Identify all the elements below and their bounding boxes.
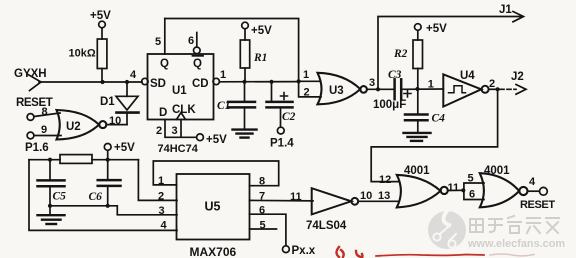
node junction U3 output / J1 riser	[376, 87, 380, 91]
svg-text:3: 3	[172, 125, 178, 137]
node terminal Px.x	[283, 245, 316, 257]
svg-text:8: 8	[259, 176, 265, 188]
label U1	[172, 85, 187, 97]
svg-text:SD: SD	[150, 78, 166, 90]
pin number 4 (SD)	[130, 69, 137, 81]
pin number 5 (U5)	[260, 220, 266, 232]
pin number 7 (U5)	[259, 191, 265, 203]
gate U3 NOR	[318, 73, 367, 105]
pin number 4 (U5)	[161, 220, 168, 232]
pin number 1 (CD)	[220, 69, 226, 81]
power +5V terminal (bottom-left rail)	[104, 142, 135, 154]
polarity plus of C3	[404, 90, 411, 97]
node P1.6 label	[25, 142, 49, 154]
label U4	[460, 70, 475, 82]
wire 74LS04 output to 4001 input 13	[358, 200, 399, 202]
wire GYXH horizontal net to SD	[39, 81, 142, 83]
pin number 10 (U2 output)	[109, 115, 121, 127]
svg-text:U1: U1	[172, 85, 187, 97]
svg-text:C4: C4	[432, 113, 446, 125]
svg-text:Px.x: Px.x	[292, 245, 316, 257]
svg-text:10: 10	[360, 190, 372, 202]
capacitor C4	[405, 89, 428, 132]
wire J1 riser and arrow	[378, 12, 524, 90]
svg-text:J2: J2	[511, 71, 524, 83]
svg-text:1: 1	[158, 175, 164, 187]
wire U1 pins 2,3 to +5V terminal	[165, 120, 197, 138]
power +5V terminal (R1)	[242, 22, 272, 37]
pin number 10 (74LS04 output)	[360, 190, 372, 202]
node RESET input label	[16, 97, 53, 109]
capacitor C5	[38, 160, 65, 206]
svg-text:7: 7	[259, 191, 265, 203]
svg-text:2: 2	[156, 125, 162, 137]
resistor horizontal on +5V rail	[60, 155, 92, 164]
node junction R1/C1	[242, 80, 246, 84]
pin number 6 (Q-bar) stub with bubble	[188, 33, 200, 54]
resistor 10kΩ pull-up	[97, 28, 107, 82]
inverter U4 schmitt 74HC14	[443, 74, 488, 106]
svg-text:1: 1	[428, 78, 434, 90]
svg-text:3: 3	[159, 205, 165, 217]
wire +5V rail (left part, resistor leads, to pin2 riser)	[29, 159, 138, 161]
pin number 12 (4001 input)	[379, 174, 391, 186]
resistor R1	[240, 29, 249, 82]
label MAX706	[190, 245, 237, 258]
svg-text:10kΩ: 10kΩ	[69, 48, 96, 60]
IC U5 MAX706 box	[177, 174, 250, 240]
svg-text:P1.4: P1.4	[270, 138, 294, 150]
wire U4 output to J2 node	[489, 88, 498, 90]
wire feedback from J2 node down-left to 4001 input 12	[371, 89, 497, 181]
node junction at U3 inputs	[297, 79, 301, 83]
svg-text:+5V: +5V	[90, 10, 111, 22]
pin number 2 (U5)	[158, 191, 164, 203]
label U2	[66, 121, 81, 133]
diode D1	[116, 82, 139, 125]
svg-text:U5: U5	[205, 200, 221, 214]
pin number 4 (4001 output)	[529, 176, 536, 188]
pin number 2 (U3 input)	[304, 87, 310, 99]
inverter 74LS04	[312, 188, 358, 214]
label D	[159, 107, 167, 119]
node junction R2/C3/C4	[415, 87, 419, 91]
wire second 4001 input bracket pins 5,6	[461, 183, 484, 200]
power +5V terminal (U1 pins 2,3)	[197, 134, 228, 146]
node junction C5 bottom / ground	[48, 204, 52, 208]
pin number 9 (U2 input)	[41, 124, 47, 136]
gate U2 NOR	[57, 110, 107, 140]
wire U3 output to C3	[367, 88, 394, 90]
capacitor C6	[98, 180, 121, 206]
svg-text:4: 4	[529, 176, 536, 188]
value label R2	[393, 48, 408, 60]
gate 4001 first NOR	[397, 175, 448, 208]
value label 10kΩ	[69, 48, 96, 60]
value label C1	[217, 100, 230, 112]
polarity plus of C2	[281, 93, 288, 100]
svg-text:4: 4	[130, 69, 137, 81]
wire U5 pin7 to 74LS04 input	[250, 199, 314, 202]
svg-text:100μF: 100μF	[373, 99, 406, 111]
wire CD node horizontal (CD pin to U3 input bracket)	[219, 81, 298, 83]
pin number 3 (CLK)	[172, 125, 178, 137]
svg-text:J1: J1	[499, 4, 512, 16]
wire U5 pin6 to Px.x terminal	[250, 214, 286, 246]
svg-text:CLK: CLK	[172, 104, 196, 116]
node J2 label	[511, 71, 524, 83]
node junction C2 branch	[269, 80, 273, 84]
pin number 11 (4001 output)	[448, 182, 460, 194]
node junction pull-up resistor on GYXH wire	[100, 80, 104, 84]
value label C6	[89, 191, 103, 203]
label 74HC74	[158, 143, 199, 155]
capacitor C3 polarized	[395, 79, 402, 99]
svg-text:GYXH: GYXH	[14, 68, 47, 80]
svg-text:74HC74: 74HC74	[158, 143, 199, 155]
schmitt hysteresis icon	[449, 86, 466, 93]
svg-text:RESET: RESET	[520, 199, 555, 211]
wire U2 output to D1 cathode	[106, 124, 127, 126]
pin number 3 (U5)	[159, 205, 165, 217]
svg-text:Q: Q	[160, 58, 169, 70]
label CD with inversion bubble	[192, 78, 219, 90]
wire +5V stem through rail to C6	[107, 150, 109, 180]
wire C3 to U4 input	[402, 88, 443, 90]
svg-text:11: 11	[290, 191, 302, 203]
svg-text:CD: CD	[192, 78, 209, 90]
svg-text:U3: U3	[329, 85, 344, 97]
pin number 6 (4001 input)	[469, 189, 475, 201]
wire RESET to U2 input	[34, 113, 60, 117]
node RESET output label	[520, 199, 555, 211]
svg-text:2: 2	[158, 191, 164, 203]
pin number 1 (U4 input)	[428, 78, 434, 90]
svg-text:4: 4	[161, 220, 168, 232]
power +5V terminal (R2)	[415, 23, 448, 35]
svg-text:MAX706: MAX706	[190, 245, 237, 258]
label U3	[329, 85, 344, 97]
node terminal pin 8 of U2	[27, 114, 34, 121]
svg-text:D1: D1	[100, 96, 115, 108]
watermark logo circle	[428, 211, 466, 249]
label 4001 (second)	[484, 165, 510, 177]
svg-text:R2: R2	[393, 48, 408, 60]
watermark url text	[467, 238, 565, 250]
svg-text:74LS04: 74LS04	[306, 220, 347, 232]
label SD with inversion bubble	[142, 78, 166, 90]
ground under C5	[38, 206, 65, 224]
value label C5	[53, 191, 67, 203]
label 74LS04	[306, 220, 347, 232]
flip-flop U1 74HC74 box	[148, 54, 214, 120]
label Q-bar (pin 6)	[193, 56, 204, 70]
svg-text:4001: 4001	[404, 165, 430, 177]
value label D1	[100, 96, 115, 108]
pin number 3 (U3 output)	[369, 77, 375, 89]
node junction D1 anode on GYXH wire	[125, 80, 129, 84]
wire first 4001 output to second gate bracket	[448, 189, 464, 191]
annotation red pen marks bottom	[337, 247, 535, 258]
watermark chinese characters (approximated)	[470, 216, 559, 233]
wire P1.6 to U2 input	[34, 135, 61, 137]
node J1 label	[499, 4, 512, 16]
wire GYXH input arrow chevron	[28, 75, 41, 91]
gate 4001 second NOR	[480, 173, 528, 207]
node terminal RESET output	[540, 187, 548, 195]
svg-text:U4: U4	[460, 70, 475, 82]
power +5V terminal (top-left)	[90, 10, 111, 28]
pin number 1 (U5)	[158, 175, 164, 187]
capacitor C2 polarized	[267, 82, 293, 127]
node junction C5 on rail	[48, 158, 52, 162]
pin number 11 (74LS04 input)	[290, 191, 302, 203]
label 4001 (first)	[404, 165, 430, 177]
node GYXH input label	[14, 68, 47, 80]
svg-text:C6: C6	[89, 191, 103, 203]
svg-text:+5V: +5V	[426, 23, 447, 35]
svg-text:5: 5	[468, 173, 474, 185]
svg-text:www.elecfans.com: www.elecfans.com	[467, 238, 565, 250]
value label C4	[432, 113, 446, 125]
svg-text:+5V: +5V	[251, 25, 272, 37]
svg-text:6: 6	[469, 189, 475, 201]
pin number 8 (U2 input)	[42, 106, 48, 118]
label U5	[205, 200, 221, 214]
resistor R2	[413, 30, 423, 89]
svg-text:2: 2	[489, 78, 495, 90]
wire ground rail C5-C6 to U5 pin3	[50, 206, 177, 215]
svg-text:1: 1	[220, 69, 226, 81]
wire second 4001 output to RESET terminal	[528, 190, 540, 192]
pin number 5 (4001 input)	[468, 173, 474, 185]
ground under C1	[233, 130, 257, 138]
svg-text:3: 3	[369, 77, 375, 89]
pin number 2 (U4 output)	[489, 78, 495, 90]
svg-text:6: 6	[188, 35, 194, 47]
svg-text:Q: Q	[193, 58, 202, 70]
svg-text:+5V: +5V	[206, 134, 227, 146]
node terminal pin 9 of U2 / P1.6	[27, 132, 34, 139]
wire U3 input bracket	[299, 81, 321, 97]
value label 100μF	[373, 99, 406, 111]
wire U5 pin1 loop to pin8	[153, 161, 278, 186]
wire +5V rail riser to U5 pin2	[138, 160, 177, 201]
svg-text:9: 9	[41, 124, 47, 136]
svg-text:D: D	[159, 107, 167, 119]
svg-text:11: 11	[448, 182, 460, 194]
svg-text:U2: U2	[66, 121, 81, 133]
pin number 8 (U5)	[259, 176, 265, 188]
wire U5 pin5 stub	[250, 228, 277, 230]
svg-text:P1.6: P1.6	[25, 142, 49, 154]
svg-text:4001: 4001	[484, 165, 510, 177]
pin number 13 (4001 input)	[378, 190, 390, 202]
capacitor C1	[228, 82, 255, 129]
svg-text:12: 12	[379, 174, 391, 186]
svg-text:C3: C3	[388, 69, 402, 81]
node junction J2	[496, 87, 500, 91]
svg-text:+5V: +5V	[114, 142, 135, 154]
svg-text:2: 2	[304, 87, 310, 99]
wire U1 pin5 Q up to top rail	[164, 19, 166, 55]
svg-text:5: 5	[155, 36, 161, 48]
value label C3	[388, 69, 402, 81]
label Q (pin 5)	[160, 58, 169, 70]
value label C2	[282, 111, 296, 123]
node junction +5V stem on rail	[106, 158, 110, 162]
pin number 6 (U5)	[259, 205, 265, 217]
label CLK with clock wedge	[172, 104, 196, 120]
pin number 2 (D)	[156, 125, 162, 137]
svg-text:1: 1	[303, 69, 309, 81]
svg-text:C5: C5	[53, 191, 67, 203]
svg-text:R1: R1	[253, 52, 267, 64]
svg-text:C1: C1	[217, 100, 230, 112]
ground under C4	[404, 133, 431, 141]
wire top rail from Q to U3 inputs	[165, 19, 299, 82]
node junction C6 bottom	[106, 204, 110, 208]
pin number 5 (Q)	[155, 36, 161, 48]
value label R1	[253, 52, 267, 64]
wire left drop to U5 pin4	[29, 160, 177, 231]
wire J2 dashed arrow	[500, 85, 526, 95]
pin number 1 (U3 input)	[303, 69, 309, 81]
svg-text:13: 13	[378, 190, 390, 202]
svg-text:C2: C2	[282, 111, 296, 123]
node terminal P1.4	[270, 127, 294, 149]
